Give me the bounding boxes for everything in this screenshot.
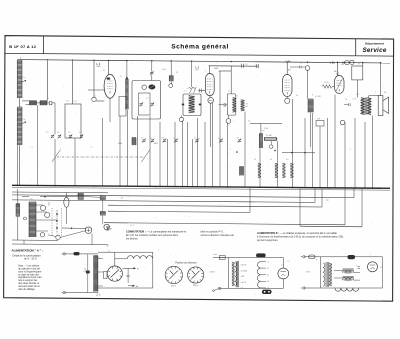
IF transformer T1 box	[183, 94, 201, 116]
return wire long	[104, 223, 345, 225]
switch contact square	[49, 102, 52, 105]
wire box to transformer	[356, 80, 358, 98]
svg-text:côté du câblage.: côté du câblage.	[18, 288, 35, 291]
junction circle under R1	[169, 84, 173, 88]
alim B transformer core	[325, 262, 327, 287]
T2 winding (dark)	[233, 97, 236, 112]
switch contact chain	[56, 210, 58, 233]
transformer core	[235, 261, 237, 287]
output transformer primary (dark bar)	[361, 98, 365, 115]
wire to dropper coil	[115, 258, 127, 260]
divider taps	[98, 258, 103, 260]
wire coil taps to capacitors	[22, 100, 30, 102]
wire second rail near V2	[219, 70, 232, 72]
svg-text:L1: L1	[267, 261, 269, 263]
junction dots on chassis bus	[17, 185, 19, 187]
grid resistor zigzag into V4	[322, 85, 335, 89]
header divider left (doc number box)	[43, 36, 45, 54]
selector dial 220V	[188, 267, 204, 283]
wire bus drop to junction circle	[93, 61, 95, 97]
mains right vertical	[282, 258, 284, 269]
coil frame inside L2	[139, 93, 151, 115]
svg-text:Position du sélecteur: Position du sélecteur	[175, 261, 197, 264]
svg-text:50: 50	[245, 64, 247, 66]
svg-text:70: 70	[84, 269, 86, 271]
mains plug (dark pill)	[262, 290, 272, 294]
on-off circle	[104, 224, 110, 230]
svg-text:du carbone et les liai-: du carbone et les liai-	[18, 268, 40, 271]
interference filter (dark)	[256, 253, 266, 257]
svg-text:0,1 MΩ: 0,1 MΩ	[266, 135, 272, 137]
supply rail 2	[12, 200, 315, 203]
wire bus to V1 top	[108, 61, 110, 75]
alim A top wire	[64, 253, 98, 255]
feedback loop drops	[361, 189, 363, 227]
svg-text:ière le support des: ière le support des	[18, 279, 38, 282]
alim A bottom wire	[64, 292, 98, 294]
svg-text:2: 2	[310, 149, 311, 151]
tube V3 internal electrodes	[285, 79, 290, 81]
filter cap plus marks	[358, 266, 361, 268]
wire socket down	[210, 103, 212, 147]
svg-text:2: 2	[48, 98, 49, 100]
socket circle below V3	[285, 98, 290, 103]
tap resistor	[103, 272, 107, 279]
svg-text:o 0: o 0	[241, 288, 244, 290]
wire second rail right half	[209, 65, 259, 67]
wire top HT bus	[18, 60, 391, 63]
svg-text:C 1: C 1	[30, 147, 33, 149]
IF transformer T1 winding (dark)	[189, 96, 195, 113]
resistor R8 vertical (dark)	[308, 99, 313, 113]
tube V1 internal electrodes	[107, 80, 112, 82]
svg-text:50: 50	[150, 138, 152, 140]
tap arrow on coil L1a	[22, 80, 26, 82]
rotary switch circle	[107, 266, 122, 281]
svg-text:0,3: 0,3	[286, 159, 288, 161]
primary winding bar (dark)	[232, 262, 235, 286]
coupling cap marks	[298, 66, 300, 69]
svg-text:ce dans la série des: ce dans la série des	[18, 273, 40, 276]
alim B terminal bottom	[303, 287, 305, 289]
svg-text:1: 1	[95, 96, 96, 98]
wire junction to V1 cathode	[96, 100, 104, 102]
svg-text:2-5: 2-5	[173, 138, 176, 140]
resistor chain bar C	[282, 163, 285, 178]
svg-text:5nF: 5nF	[317, 119, 320, 121]
capacitor C2 (dark block)	[40, 101, 47, 105]
tube V3 (detector/AF envelope)	[283, 74, 293, 96]
power section extra wiring	[22, 196, 29, 198]
output transformer secondary (dark bar)	[367, 98, 371, 115]
arrow to A	[128, 285, 135, 287]
svg-text:des tubes Novals, le: des tubes Novals, le	[18, 282, 40, 285]
T1 side lead dots	[182, 104, 184, 106]
svg-text:2-5: 2-5	[46, 132, 49, 134]
svg-text:L 1b: L 1b	[22, 119, 25, 121]
wire bus to osc coil	[126, 61, 128, 77]
power autotransformer (dark bar)	[29, 202, 36, 237]
rectifier tube circle (bottom)	[278, 268, 289, 279]
svg-text:régulateurs d'une man-: régulateurs d'une man-	[18, 276, 42, 279]
wire bus to V3 top	[286, 61, 288, 74]
svg-text:0,1: 0,1	[296, 95, 298, 97]
capacitor block b (dark)	[100, 196, 105, 200]
alim B transformer primary loops	[323, 263, 325, 286]
alim B terminal top	[303, 256, 305, 258]
shield box beside osc coil	[119, 97, 126, 117]
wire R5 top	[260, 123, 262, 133]
svg-text:1: 1	[230, 149, 231, 151]
svg-text:2-5: 2-5	[68, 132, 71, 134]
alim B right vertical	[382, 257, 384, 288]
svg-text:o 6,3 V: o 6,3 V	[241, 265, 247, 267]
wire R8 down	[310, 113, 312, 148]
svg-text:5: 5	[375, 92, 376, 94]
wire V1 base down	[109, 98, 111, 122]
svg-text:Service: Service	[362, 47, 386, 54]
svg-text:L4: L4	[267, 281, 269, 283]
alim B bottom wire	[304, 287, 383, 289]
svg-text:220 V: 220 V	[210, 272, 216, 274]
svg-text:110 v: 110 v	[171, 286, 177, 288]
wire bus to V4 top cap	[337, 62, 339, 76]
wire T1 box to circle	[181, 116, 183, 118]
capacitor block a (dark)	[78, 193, 83, 200]
commutation box top wire	[98, 251, 153, 253]
svg-text:Sect.: Sect.	[214, 253, 219, 256]
svg-text:AT: AT	[107, 245, 109, 248]
svg-text:n: n	[250, 190, 251, 192]
return wire drop	[344, 189, 346, 225]
svg-text:+HT: +HT	[120, 198, 123, 200]
svg-text:6BA6: 6BA6	[118, 142, 122, 145]
alim B left vertical	[320, 257, 322, 288]
gang coupling diagonal right	[142, 150, 151, 163]
speaker cone	[383, 97, 389, 114]
detector coil winding (dark)	[241, 100, 245, 111]
svg-text:osc: osc	[146, 98, 149, 100]
wire bus drop to C1 node	[47, 61, 49, 101]
tap arrow on coil L1b	[22, 122, 26, 124]
svg-text:0,5: 0,5	[248, 121, 250, 123]
tone capacitor box	[316, 121, 324, 127]
wire capacitor row to node	[52, 102, 55, 104]
svg-text:C V1: C V1	[73, 101, 77, 103]
svg-text:220 v: 220 v	[193, 285, 199, 287]
trimmer capacitor circle inside L2	[142, 85, 147, 90]
capacitor block c (dark)	[100, 211, 105, 215]
rectifier circle	[85, 227, 92, 234]
svg-text:100 µF: 100 µF	[84, 271, 89, 273]
choke 1	[343, 270, 354, 273]
wire rail to IF2 box	[230, 66, 232, 94]
svg-text:6BE6: 6BE6	[97, 66, 101, 68]
junction dots on top bus	[47, 59, 48, 60]
svg-text:L 3b: L 3b	[330, 62, 335, 65]
svg-text:de V - 22 V.: de V - 22 V.	[24, 257, 38, 261]
wire T2 to circle	[227, 115, 229, 119]
header divider right (service box)	[355, 39, 357, 56]
resistor chain bar A	[258, 163, 261, 178]
svg-text:suivre la direction marquée pa: suivre la direction marquée par	[201, 234, 235, 237]
svg-text:4-9: 4-9	[218, 138, 221, 140]
svg-text:o 2×350: o 2×350	[241, 269, 248, 272]
tube V4 (output pentode envelope)	[335, 76, 345, 94]
oscillator coil with core (dark bar)	[126, 79, 129, 110]
svg-text:6B7: 6B7	[196, 70, 199, 72]
wire ballast	[17, 189, 19, 204]
antenna AT symbol	[106, 227, 109, 230]
svg-text:7,5 V: 7,5 V	[306, 272, 311, 274]
svg-text:50: 50	[237, 138, 239, 140]
connection box above output transformer	[352, 66, 363, 80]
alim B top wire	[304, 256, 383, 258]
svg-text:R 1: R 1	[97, 294, 100, 296]
output transformer core lines	[365, 98, 367, 115]
wire bus to R1	[170, 61, 172, 76]
wire V3 socket	[286, 97, 288, 99]
svg-text:o: o	[158, 249, 159, 251]
tube V2 (IF amp envelope)	[205, 74, 214, 96]
resistor R5 vertical (dark)	[259, 134, 262, 149]
electrolytic oval	[64, 197, 69, 207]
resistor bar on cathode line (dark)	[132, 138, 136, 146]
volume pot circle	[269, 145, 273, 149]
switch circle b	[56, 235, 60, 239]
alim A fuse (dark pill)	[74, 252, 80, 255]
supply rail 4	[108, 211, 250, 212]
junction circle below T2	[226, 119, 231, 124]
gang coupling dash-dot line	[57, 156, 145, 158]
wire AVC horizontal	[250, 122, 282, 124]
alim A terminal bottom	[63, 291, 65, 293]
choke wires	[334, 270, 343, 272]
svg-text:L 1: L 1	[97, 62, 101, 66]
commutation box bottom wire	[98, 287, 153, 289]
svg-text:B60: B60	[341, 64, 344, 66]
junction circle below T1	[179, 117, 183, 121]
alim A terminal top	[63, 253, 65, 255]
rail 2 drop	[314, 189, 316, 203]
cathode capacitor marks	[347, 103, 349, 106]
wire coil L1b to ground bus	[19, 145, 21, 186]
svg-text:T 2: T 2	[228, 91, 230, 93]
chassis ground bus (thick)	[12, 185, 390, 188]
mains fuse box	[219, 256, 225, 260]
wire transformer to speaker top	[369, 95, 379, 97]
svg-text:Nota. — Les valeurs: Nota. — Les valeurs	[18, 265, 40, 268]
svg-text:10 kΩ: 10 kΩ	[324, 82, 329, 84]
arrow to B	[122, 267, 135, 269]
resistor bar on detector line (dark)	[240, 167, 244, 176]
wire power section top	[12, 191, 108, 194]
svg-text:o 6,3 V: o 6,3 V	[241, 282, 247, 284]
svg-text:L3: L3	[267, 275, 269, 277]
selector dial 110V	[165, 266, 182, 283]
alim B fuse	[309, 255, 315, 259]
choke 2	[343, 277, 354, 280]
svg-text:Département: Département	[365, 42, 385, 46]
svg-text:L5: L5	[267, 288, 269, 290]
wire junction to V1 grid	[88, 89, 104, 91]
socket circle below V2	[208, 98, 214, 104]
transformer primary loops	[235, 262, 237, 286]
mains top wire	[213, 257, 283, 259]
tube V2 internal electrodes	[207, 78, 212, 80]
padding trimmer capacitors row	[51, 135, 54, 137]
power wiring horizontals	[12, 239, 58, 241]
rail 4 drop	[249, 188, 251, 212]
rail 1 drop	[353, 188, 355, 198]
gang coupling diagonal left	[52, 150, 61, 163]
header separator line	[5, 53, 394, 56]
mains switch bottom left	[218, 287, 220, 289]
resistor chain bar B	[275, 163, 278, 178]
svg-text:L 2b: L 2b	[286, 60, 291, 63]
speaker frame	[378, 96, 383, 116]
alim A capacitor block	[86, 271, 90, 274]
wire from bus to gang	[72, 61, 74, 104]
tube V4 internal electrodes	[337, 80, 342, 82]
trimmer arrows inside L2	[140, 103, 143, 105]
AVC distribution wire	[282, 152, 315, 154]
T1 tuning arrows	[189, 87, 197, 93]
grid circle node	[305, 66, 310, 71]
svg-text:0,1: 0,1	[176, 72, 178, 74]
svg-text:4-9: 4-9	[57, 132, 60, 134]
coupling capacitor C7	[223, 103, 225, 107]
wire joining antenna coils	[19, 98, 21, 107]
tube V1 (converter, ellipse envelope)	[104, 74, 116, 98]
mains bottom wire	[219, 287, 283, 289]
svg-text:0,5: 0,5	[300, 63, 302, 65]
voltage divider bar (dark)	[94, 256, 98, 292]
svg-text:50: 50	[345, 99, 347, 101]
paper speckle	[131, 93, 134, 96]
svg-text:L 1a: L 1a	[22, 77, 25, 79]
wire bus right drop to speaker	[380, 62, 382, 96]
svg-text:ALIMENTATION " A " :: ALIMENTATION " A " :	[12, 248, 43, 252]
capacitor C1 (dark block)	[30, 101, 37, 105]
ballast resistor	[16, 204, 20, 217]
secondary taps	[261, 261, 266, 263]
svg-text:a: a	[338, 72, 339, 74]
svg-text:25: 25	[194, 138, 196, 140]
svg-text:6AT6: 6AT6	[287, 69, 291, 72]
svg-text:T2: T2	[236, 96, 238, 98]
svg-text:B 1F 07 A 12: B 1F 07 A 12	[9, 44, 37, 49]
IF transformer T2 box	[227, 94, 236, 115]
supply rail 1	[12, 195, 354, 198]
oscillator section box L2	[132, 81, 161, 120]
rail 3 drop	[321, 189, 323, 207]
svg-text:3: 3	[350, 149, 351, 151]
svg-text:0,1: 0,1	[254, 159, 256, 161]
wire grid circle down	[307, 70, 309, 99]
rectifier tube B	[368, 262, 378, 272]
pilot lamp circle	[40, 205, 45, 210]
wire bus elbow to V2 top	[209, 66, 211, 74]
svg-text:C 2: C 2	[90, 147, 93, 149]
svg-text:raccourci étant de ce: raccourci étant de ce	[18, 285, 40, 288]
alim B primary bar (dark)	[329, 263, 332, 286]
junction circle	[92, 97, 96, 101]
wire R6 to vert	[277, 138, 278, 140]
capacitor on second rail	[240, 64, 242, 68]
resistor R1 (grid stopper)	[169, 76, 173, 82]
dropper coil	[127, 256, 153, 259]
switch wafer dashes	[51, 208, 53, 236]
svg-text:50 pF: 50 pF	[162, 69, 166, 71]
wire V2 left grid components	[198, 90, 205, 92]
alim B filter pill (dark)	[348, 255, 356, 259]
svg-text:+: +	[220, 204, 221, 206]
svg-text:sons et l'hyperfréquen-: sons et l'hyperfréquen-	[18, 270, 42, 273]
power section tiny circles	[24, 217, 27, 220]
resistor chain bar D	[290, 163, 293, 178]
svg-text:L 4: L 4	[287, 261, 289, 263]
svg-text:2-5: 2-5	[141, 138, 144, 140]
vertical wires descending to chassis bus	[17, 145, 19, 185]
svg-text:5 nF: 5 nF	[353, 99, 356, 101]
svg-text:4-9: 4-9	[79, 132, 82, 134]
svg-text:2: 2	[205, 71, 206, 73]
pilot lamp circle 2	[45, 212, 50, 217]
svg-text:L2: L2	[267, 268, 269, 270]
rotary switch spokes	[120, 275, 122, 278]
svg-text:4-9: 4-9	[162, 138, 165, 140]
capacitor below arrow	[127, 274, 130, 276]
tuning gang frame	[65, 104, 81, 138]
resistor R6 horizontal (dark)	[265, 137, 277, 140]
wire V2 to socket	[209, 96, 211, 98]
svg-text:6AT6: 6AT6	[154, 142, 158, 145]
junction circle right	[340, 120, 345, 125]
commutation box right wire	[152, 252, 154, 288]
trimmer atop L2 box	[150, 71, 153, 73]
switch circle a	[40, 233, 44, 237]
svg-text:S 1: S 1	[108, 251, 111, 253]
decoupling circle node 2	[350, 60, 354, 64]
wire R1 to junction	[170, 81, 172, 83]
antenna coil L1a	[17, 60, 22, 98]
alim B bottom coil	[335, 288, 359, 291]
svg-text:50: 50	[120, 76, 122, 78]
svg-text:0,1: 0,1	[103, 70, 105, 72]
supply rail 3	[108, 205, 322, 207]
svg-text:0,5 MΩ: 0,5 MΩ	[315, 96, 321, 98]
border frame of schematic sheet	[4, 36, 394, 302]
padder capacitor (dark oval)	[149, 85, 156, 90]
svg-text:50: 50	[270, 159, 272, 161]
junction dot pair	[236, 151, 238, 153]
feedback loop bottom	[300, 225, 362, 228]
svg-text:les flèches.: les flèches.	[126, 237, 139, 240]
svg-text:qui sont supprimés.: qui sont supprimés.	[257, 239, 278, 242]
chassis ground bus lower line	[12, 187, 390, 190]
svg-text:Schéma général: Schéma général	[171, 44, 229, 51]
antenna coil L1b	[17, 107, 22, 145]
wire bus to T1	[191, 61, 193, 87]
secondary loops (large)	[257, 262, 260, 289]
svg-text:6BA6: 6BA6	[214, 67, 218, 70]
mains left vertical	[228, 258, 230, 289]
svg-text:T 1: T 1	[184, 91, 186, 93]
